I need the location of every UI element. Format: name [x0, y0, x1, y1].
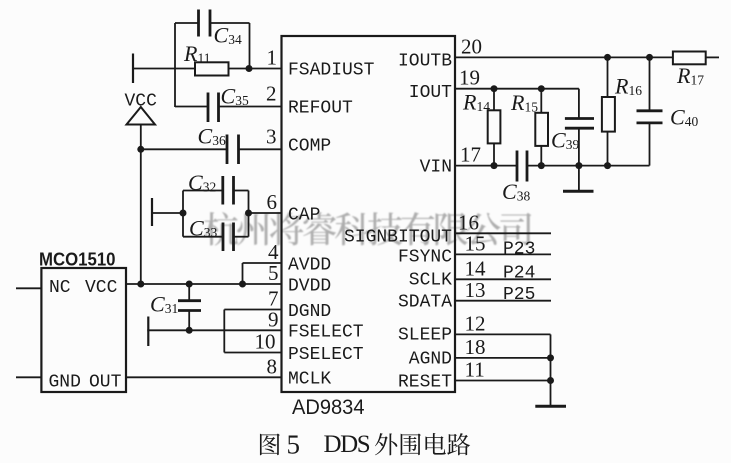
svg-text:14: 14 [465, 257, 487, 281]
svg-text:11: 11 [465, 358, 485, 382]
wire C31 top lead [188, 284, 190, 301]
svg-text:19: 19 [459, 66, 480, 90]
wire C32 top left [183, 190, 223, 192]
svg-text:P23: P23 [503, 240, 535, 260]
svg-text:5: 5 [287, 430, 301, 460]
wire FSYNC (pin15) [455, 253, 551, 255]
wire IOUTB rail (pin20) [455, 56, 673, 58]
svg-text:VCC: VCC [85, 278, 118, 298]
capacitor C35 [207, 93, 210, 123]
wire pin7/9/10 bracket [223, 310, 225, 353]
wire pin1 stub to R11 [132, 68, 195, 70]
svg-text:8: 8 [267, 354, 278, 378]
junction node pin1/C34 [246, 65, 253, 72]
junction node C40 top [646, 54, 653, 61]
ground GND2 [535, 405, 566, 408]
svg-text:FSYNC: FSYNC [398, 248, 452, 268]
capacitor C39 [565, 117, 594, 120]
svg-text:3: 3 [266, 125, 277, 149]
wire C33 bottom left [183, 236, 223, 238]
wire C34 top right [210, 22, 250, 24]
svg-text:DDS: DDS [324, 431, 370, 458]
svg-text:MCO1510: MCO1510 [39, 249, 116, 269]
wire R14 bottom lead [493, 143, 495, 165]
terminal stub T1 (pin1 net) [132, 54, 134, 84]
op-amp U1 AD9834 body [282, 36, 456, 392]
power VCC symbol [127, 107, 156, 125]
junction node R16 bottom [604, 162, 611, 169]
wire C35 to U1 pin2 [219, 106, 282, 108]
svg-text:10: 10 [255, 330, 276, 354]
wire R15 bottom lead [540, 146, 542, 166]
wire C31 bottom lead [188, 311, 190, 331]
wire C34 top left [175, 22, 199, 24]
svg-text:SIGNBITOUT: SIGNBITOUT [344, 228, 452, 248]
svg-text:18: 18 [465, 335, 486, 359]
svg-text:RESET: RESET [398, 373, 452, 393]
svg-text:12: 12 [465, 312, 486, 336]
capacitor C31 [178, 299, 201, 302]
junction node R14 top [491, 85, 498, 92]
svg-text:15: 15 [465, 232, 486, 256]
svg-text:13: 13 [465, 278, 486, 302]
resistor R17 [673, 52, 706, 65]
wire R11 to U1 pin1 [229, 68, 282, 70]
wire C33 right vertical [248, 213, 250, 237]
svg-text:VIN: VIN [420, 158, 452, 178]
wire pin4 bracket [242, 263, 244, 284]
terminal stub T3 (pin9 net) [147, 317, 149, 347]
junction node VCC/C36 [137, 146, 144, 153]
watermark [204, 212, 531, 246]
capacitor C33 [222, 223, 225, 252]
svg-text:FSADIUST: FSADIUST [288, 61, 375, 81]
capacitor C34 [197, 10, 200, 37]
wire SLEEP (pin12) [455, 333, 551, 335]
resistor R14 [488, 110, 501, 143]
svg-text:GND: GND [49, 373, 81, 393]
svg-text:P25: P25 [503, 285, 535, 305]
svg-text:SLEEP: SLEEP [398, 326, 452, 346]
junction node bracket/DVDD [239, 281, 246, 288]
wire C39 bottom lead [578, 128, 580, 165]
wire C33 bottom right [234, 236, 249, 238]
capacitor C40 [637, 109, 663, 112]
svg-text:9: 9 [268, 308, 279, 332]
wire C40 top lead [649, 57, 651, 110]
wire C35 left [175, 106, 208, 108]
svg-text:SDATA: SDATA [398, 293, 452, 313]
junction node C32/C33 right [245, 210, 252, 217]
wire pin10 to U1 [224, 352, 281, 354]
svg-text:IOUT: IOUT [409, 83, 452, 103]
svg-text:AD9834: AD9834 [292, 395, 365, 419]
wire C34 left vertical [174, 23, 176, 107]
capacitor C36 [226, 135, 229, 165]
wire C32 left vertical [182, 191, 184, 214]
wire IOUT rail (pin19) [455, 88, 579, 90]
svg-text:DVDD: DVDD [288, 277, 331, 297]
svg-text:IOUTB: IOUTB [398, 52, 452, 72]
wire ground drop [550, 334, 552, 406]
svg-text:NC: NC [49, 278, 71, 298]
wire AGND (pin18) [455, 357, 551, 359]
junction node RESET [547, 377, 554, 384]
wire SDATA (pin13) [455, 300, 551, 302]
junction node C39/ground [575, 162, 582, 169]
wire C34 right vertical [249, 23, 251, 69]
wire R16 bottom lead [607, 132, 609, 166]
svg-text:17: 17 [460, 143, 481, 167]
svg-text:REFOUT: REFOUT [288, 99, 353, 119]
svg-text:PSELECT: PSELECT [288, 345, 364, 365]
svg-text:DGND: DGND [288, 302, 331, 322]
junction node C32/C33 left [180, 210, 187, 217]
wire C39 top lead [578, 89, 580, 119]
wire C38 to C40 corner [527, 165, 650, 167]
svg-text:6: 6 [267, 190, 278, 214]
ground GND1 [563, 190, 594, 193]
wire C32 top right [234, 190, 249, 192]
wire R16 top lead [607, 57, 609, 97]
svg-text:20: 20 [461, 35, 482, 59]
capacitor C38 [516, 151, 519, 182]
wire R15 top lead [540, 89, 542, 113]
wire RESET (pin11) [455, 380, 551, 382]
wire VCC rail [140, 125, 142, 285]
wire pin6 to U1 [249, 212, 282, 214]
junction node R16 top [604, 54, 611, 61]
svg-text:2: 2 [266, 82, 277, 106]
wire SIGNBITOUT (pin16) [455, 232, 551, 234]
capacitor C32 [221, 176, 224, 205]
wire pin7 to U1 [224, 309, 281, 311]
wire R17 right [706, 56, 719, 58]
wire SCLK (pin14) [455, 278, 551, 280]
wire pin9 rail [147, 329, 281, 331]
junction node R15 top [538, 85, 545, 92]
junction node R15 bottom [538, 162, 545, 169]
svg-text:OUT: OUT [89, 373, 122, 393]
resistor R16 [602, 97, 615, 132]
wire C36 to U1 pin3 [239, 148, 282, 150]
svg-text:1: 1 [267, 46, 278, 70]
junction node R14 bottom [491, 162, 498, 169]
svg-text:SCLK: SCLK [409, 271, 452, 291]
terminal stub T2 (pin6 net) [151, 198, 153, 226]
wire DVDD rail (pin5) [126, 283, 282, 285]
wire pin6 stub [151, 212, 183, 214]
svg-text:MCLK: MCLK [288, 370, 331, 390]
wire R14 top lead [493, 89, 495, 111]
oscillator X1 MCO1510 body [41, 268, 126, 392]
wire GND stub [16, 376, 41, 378]
junction node AGND [547, 354, 554, 361]
ground GND1 stem [578, 166, 580, 192]
resistor R15 [535, 113, 548, 146]
caption 图5 DDS外围电路 [260, 430, 470, 460]
svg-text:COMP: COMP [288, 137, 331, 157]
svg-text:AGND: AGND [409, 350, 452, 370]
svg-text:5: 5 [268, 261, 279, 285]
wire OUT to U1 pin8 (MCLK) [126, 376, 282, 378]
junction node VCC rail/DVDD [137, 281, 144, 288]
wire C36 left [141, 148, 227, 150]
wire C32 right vertical [248, 191, 250, 214]
resistor R11 [195, 62, 229, 75]
wire C33 left vertical [182, 213, 184, 237]
wire NC stub [16, 287, 41, 289]
wire C40 bottom lead [649, 123, 651, 166]
svg-text:FSELECT: FSELECT [288, 323, 364, 343]
junction node C31 top [186, 281, 193, 288]
svg-text:P24: P24 [503, 264, 535, 284]
junction node C31 bottom [186, 327, 193, 334]
svg-text:CAP: CAP [288, 206, 320, 226]
svg-text:AVDD: AVDD [288, 256, 331, 276]
wire VIN to C38 (pin17) [455, 165, 517, 167]
